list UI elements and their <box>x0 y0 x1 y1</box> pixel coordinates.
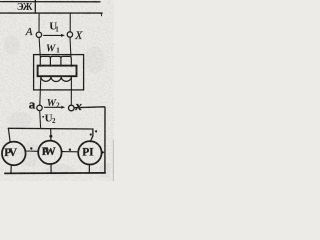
wire PI bottom <box>88 165 90 173</box>
wire from top line to node A <box>38 14 40 32</box>
top border line <box>0 1 100 3</box>
dot before U2 <box>42 116 44 118</box>
wire PI right stub <box>102 151 104 153</box>
junction dot PW top <box>49 135 52 138</box>
primary winding W1 <box>40 56 71 66</box>
voltmeter PV <box>2 142 26 166</box>
arrowhead U1 <box>61 34 65 37</box>
arrowhead PI stub <box>102 151 106 154</box>
secondary winding W2 <box>41 77 72 82</box>
wire node x to right branch <box>74 107 105 173</box>
wire PV bottom <box>10 165 12 173</box>
node a <box>37 105 42 110</box>
wire secondary left to node a <box>40 77 41 105</box>
wire bus to wattmeter PW <box>50 129 52 141</box>
dot near bus corner <box>95 130 97 132</box>
wire bus to voltmeter PV <box>8 129 10 143</box>
arrowhead W2 <box>61 106 65 109</box>
transformer outer box <box>34 55 84 90</box>
wire node a down to bus <box>39 111 42 128</box>
polarity dot PV-PW <box>30 147 32 149</box>
header tick end <box>100 13 102 16</box>
dot PI top <box>90 133 92 135</box>
wire from top line to node X <box>69 14 71 32</box>
bus wire <box>8 128 93 141</box>
wire node A to primary winding <box>39 37 40 57</box>
arrow U1/W1 <box>44 34 62 36</box>
paper noise <box>4 35 111 178</box>
node X <box>67 32 72 37</box>
arrow W2/U2 <box>44 106 61 108</box>
header divider <box>34 0 36 13</box>
wire PW to PI <box>62 151 79 153</box>
ammeter PI <box>78 141 101 164</box>
wire PW bottom <box>50 164 52 173</box>
polarity dot PW-PI <box>69 149 71 151</box>
header bottom line <box>0 12 102 14</box>
wire node X to primary winding <box>69 37 72 57</box>
transformer core <box>38 66 77 77</box>
wattmeter PW <box>38 141 61 164</box>
scan edge shadow <box>113 140 114 181</box>
wire secondary right to node x <box>70 77 72 105</box>
node x <box>69 105 75 111</box>
bottom return wire <box>5 172 105 175</box>
wire PV to PW <box>26 150 39 152</box>
node A <box>36 32 41 37</box>
